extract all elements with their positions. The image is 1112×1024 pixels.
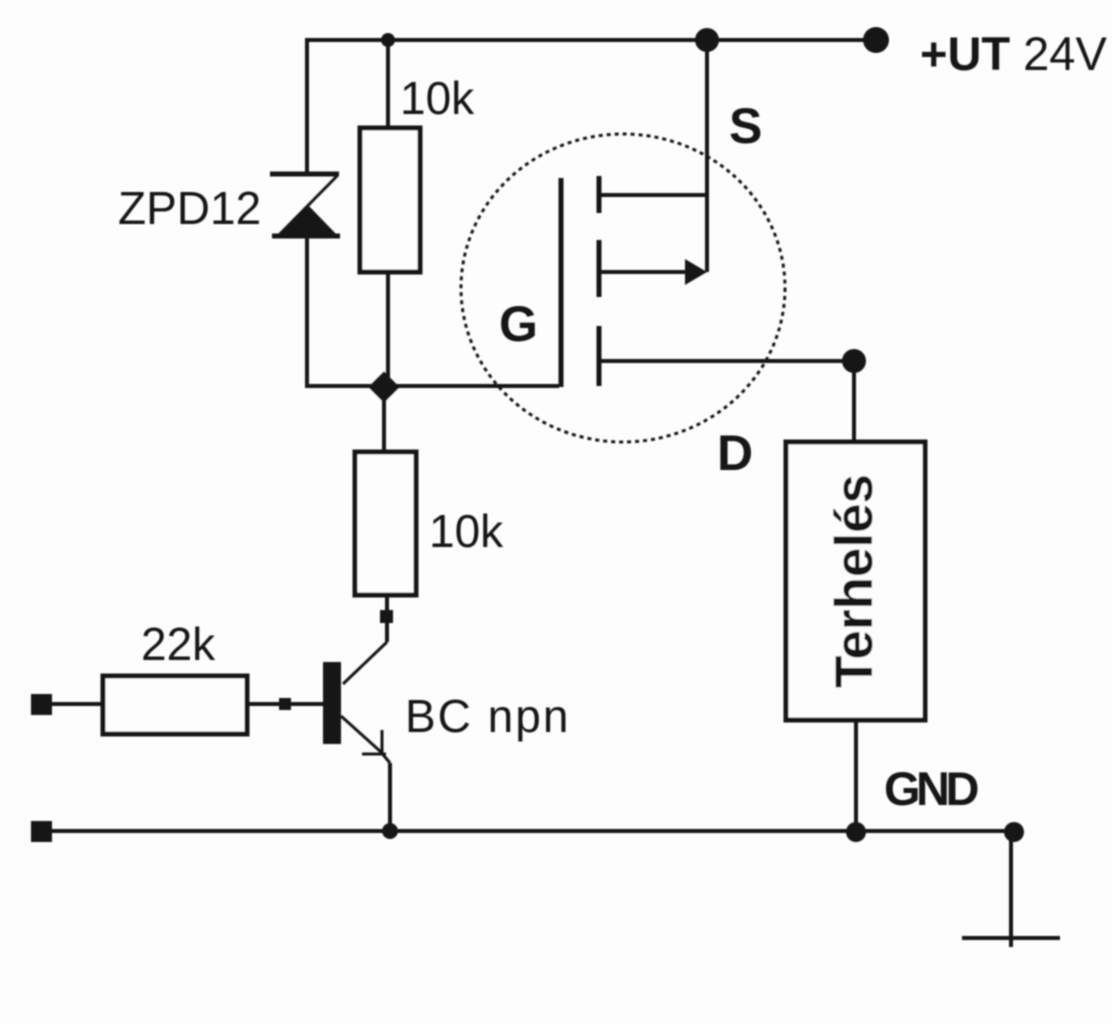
label: +UT 24V xyxy=(920,27,1107,80)
MOSFET U1 body contact with arrow xyxy=(599,259,707,285)
svg-text:22k: 22k xyxy=(141,618,216,670)
load: Terhelés box xyxy=(786,442,925,720)
zener diode D1 ZPD12 xyxy=(270,174,340,236)
terminal: ground rail left square xyxy=(31,821,52,842)
MOSFET U1 body circle xyxy=(461,134,785,442)
resistor R2 10k xyxy=(355,452,416,595)
label: 10k (R2) xyxy=(429,505,504,557)
wire: R3 to base xyxy=(247,702,323,706)
wire: R1 bottom to gate node xyxy=(386,272,390,386)
svg-text:ZPD12: ZPD12 xyxy=(118,182,261,234)
node: rail / MOSFET source junction xyxy=(695,28,719,52)
wire: zener anode down and right to gate node xyxy=(307,236,559,386)
label: 22k xyxy=(141,618,216,670)
terminal: input (left square) xyxy=(31,694,52,715)
svg-text:10k: 10k xyxy=(429,505,504,557)
svg-text:G: G xyxy=(499,296,538,352)
resistor R3 22k xyxy=(103,676,247,734)
wire: rail down to zener cathode xyxy=(305,38,309,172)
label: G xyxy=(499,296,538,352)
wire: source vertical to rail xyxy=(705,40,709,272)
terminal: +UT supply xyxy=(863,27,889,53)
MOSFET U1 source contact xyxy=(599,193,707,197)
wire: drain node down to load xyxy=(852,361,856,442)
node: base wire square dot xyxy=(279,698,291,710)
node: emitter / ground rail xyxy=(382,823,398,839)
svg-text:10k: 10k xyxy=(400,72,475,124)
svg-text:D: D xyxy=(717,425,753,481)
label: D xyxy=(717,425,753,481)
label: ZPD12 xyxy=(118,182,261,234)
wire: +UT power rail xyxy=(307,38,876,42)
resistor R1 10k xyxy=(360,128,420,272)
svg-text:BC npn: BC npn xyxy=(405,690,570,742)
MOSFET U1 drain contact xyxy=(599,359,854,363)
wire: rail to R1 top xyxy=(386,40,390,128)
node: ground symbol junction xyxy=(1004,822,1024,842)
node: load / ground rail xyxy=(846,822,866,842)
label: BC npn xyxy=(405,690,570,742)
label: S xyxy=(729,98,762,154)
node: rail / R1 junction xyxy=(381,33,395,47)
svg-text:GND: GND xyxy=(884,762,978,815)
node: gate junction (diamond) xyxy=(368,371,399,402)
ground rail xyxy=(52,829,1014,833)
svg-text:Terhelés: Terhelés xyxy=(825,474,884,688)
wire: gate node down to R2 xyxy=(382,387,386,452)
wire: load bottom to ground rail xyxy=(854,720,858,831)
label: 10k (R1) xyxy=(400,72,475,124)
node: drain junction xyxy=(842,349,866,373)
MOSFET U1 gate electrode xyxy=(559,178,564,387)
svg-text:S: S xyxy=(729,98,762,154)
MOSFET U1 channel segments xyxy=(597,176,602,386)
ground symbol xyxy=(962,832,1060,947)
label: GND xyxy=(884,762,978,815)
transistor Q1 BC npn xyxy=(323,662,390,763)
node: collector wire square dot xyxy=(380,610,393,623)
svg-text:+UT 24V: +UT 24V xyxy=(920,27,1107,80)
wire: R2 bottom to collector xyxy=(343,595,387,684)
wire: emitter down to ground rail xyxy=(388,763,392,831)
wire: input terminal to R3 xyxy=(52,702,103,706)
